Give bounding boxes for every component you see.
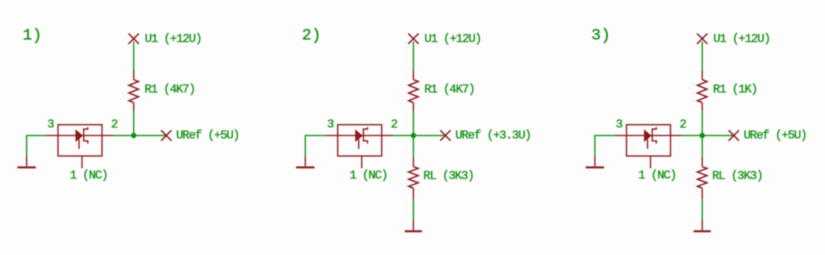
svg-text:U1 (+12U): U1 (+12U): [424, 32, 481, 46]
node URef output terminal X, circuit 3: [729, 130, 739, 140]
svg-text:2: 2: [391, 118, 398, 132]
wire from R1 to junction, circuit 2: [412, 111, 414, 136]
pin 1 stub below box, circuit 1: [81, 156, 83, 168]
junction dot circuit 2: [411, 133, 416, 138]
svg-text:URef (+3.3U): URef (+3.3U): [455, 129, 531, 143]
diode anode reference line, circuit 1: [78, 139, 80, 149]
wire from R1 to junction, circuit 3: [701, 111, 703, 136]
pin 3 and pin 2 horizontal pin line through body, circuit 1: [46, 135, 113, 137]
svg-text:R1 (4K7): R1 (4K7): [424, 83, 474, 97]
bottom ground symbol circuit 3: [701, 220, 703, 230]
svg-text:1): 1): [23, 27, 42, 45]
resistor RL circuit 2: [412, 158, 414, 167]
wire ground vertical drop, circuit 2: [304, 135, 306, 157]
wire pin2 to URef terminal, circuit 2: [393, 135, 446, 137]
ground symbol circuit 1: [26, 157, 28, 166]
svg-text:2): 2): [302, 27, 321, 45]
svg-text:RL (3K3): RL (3K3): [712, 169, 762, 183]
bottom ground symbol circuit 2: [412, 220, 414, 230]
wire ground vertical drop, circuit 1: [26, 135, 28, 157]
wire RL to bottom ground, circuit 3: [701, 199, 703, 220]
wire RL to bottom ground, circuit 2: [412, 199, 414, 220]
svg-text:2: 2: [111, 118, 118, 132]
svg-text:R1 (1K): R1 (1K): [713, 83, 757, 97]
diode anode reference line, circuit 3: [647, 139, 649, 149]
op-amp/shunt-reference U circuit 1 box body: [58, 125, 102, 156]
resistor R1 circuit 1: [133, 71, 135, 80]
pin 3 and pin 2 horizontal pin line through body, circuit 2: [326, 135, 393, 137]
svg-text:URef (+5U): URef (+5U): [176, 129, 239, 143]
op-amp/shunt-reference U circuit 2 box body: [338, 125, 382, 156]
wire pin3 to ground corner, circuit 3: [595, 135, 615, 137]
wire pin2 to URef terminal, circuit 3: [682, 135, 734, 137]
svg-text:1 (NC): 1 (NC): [350, 169, 388, 183]
node URef output terminal X, circuit 1: [161, 130, 171, 140]
diode anode reference line, circuit 2: [358, 139, 360, 149]
wire from R1 to junction, circuit 1: [133, 111, 135, 136]
node U1 (+12U) supply terminal X circuit 1: [129, 34, 139, 44]
svg-text:1 (NC): 1 (NC): [638, 169, 676, 183]
junction dot circuit 3: [700, 133, 705, 138]
wire pin3 to ground corner, circuit 1: [27, 135, 47, 137]
zener diode cathode bar with hooks, circuit 2: [363, 127, 367, 143]
op-amp/shunt-reference U circuit 3 box body: [627, 125, 671, 156]
node U1 (+12U) supply terminal X circuit 3: [697, 34, 707, 44]
junction dot circuit 1: [131, 133, 136, 138]
zener diode inside U circuit 1: anode triangle: [76, 130, 83, 141]
ground symbol circuit 3: [594, 157, 596, 166]
wire from U1 terminal down to R1 pin, circuit 1: [133, 42, 135, 71]
svg-text:3: 3: [616, 118, 623, 132]
wire from U1 terminal down to R1 pin, circuit 2: [412, 42, 414, 71]
wire junction down to RL, circuit 2: [412, 136, 414, 158]
wire from U1 terminal down to R1 pin, circuit 3: [701, 42, 703, 71]
svg-text:2: 2: [680, 118, 687, 132]
wire pin2 to URef terminal, circuit 1: [113, 135, 166, 137]
pin 1 stub below box, circuit 3: [650, 156, 652, 168]
wire ground vertical drop, circuit 3: [594, 135, 596, 157]
wire junction down to RL, circuit 3: [701, 136, 703, 158]
svg-text:U1 (+12U): U1 (+12U): [145, 32, 202, 46]
resistor R1 circuit 3: [701, 71, 703, 80]
svg-text:R1 (4K7): R1 (4K7): [145, 83, 195, 97]
ground symbol circuit 2: [304, 157, 306, 166]
zener diode cathode bar with hooks, circuit 3: [652, 127, 656, 143]
resistor RL circuit 3: [701, 158, 703, 167]
wire pin3 to ground corner, circuit 2: [305, 135, 326, 137]
svg-text:1 (NC): 1 (NC): [70, 169, 108, 183]
svg-text:3): 3): [591, 27, 610, 45]
svg-text:URef (+5U): URef (+5U): [744, 129, 807, 143]
zener diode inside U circuit 2: anode triangle: [356, 130, 363, 141]
svg-text:3: 3: [327, 118, 334, 132]
svg-text:U1 (+12U): U1 (+12U): [713, 32, 770, 46]
resistor R1 circuit 2: [412, 71, 414, 80]
svg-text:RL (3K3): RL (3K3): [423, 169, 473, 183]
node U1 (+12U) supply terminal X circuit 2: [408, 34, 418, 44]
svg-text:3: 3: [47, 118, 54, 132]
node URef output terminal X, circuit 2: [440, 130, 450, 140]
pin 3 and pin 2 horizontal pin line through body, circuit 3: [615, 135, 682, 137]
zener diode cathode bar with hooks, circuit 1: [84, 127, 88, 143]
zener diode inside U circuit 3: anode triangle: [644, 130, 651, 141]
pin 1 stub below box, circuit 2: [361, 156, 363, 168]
